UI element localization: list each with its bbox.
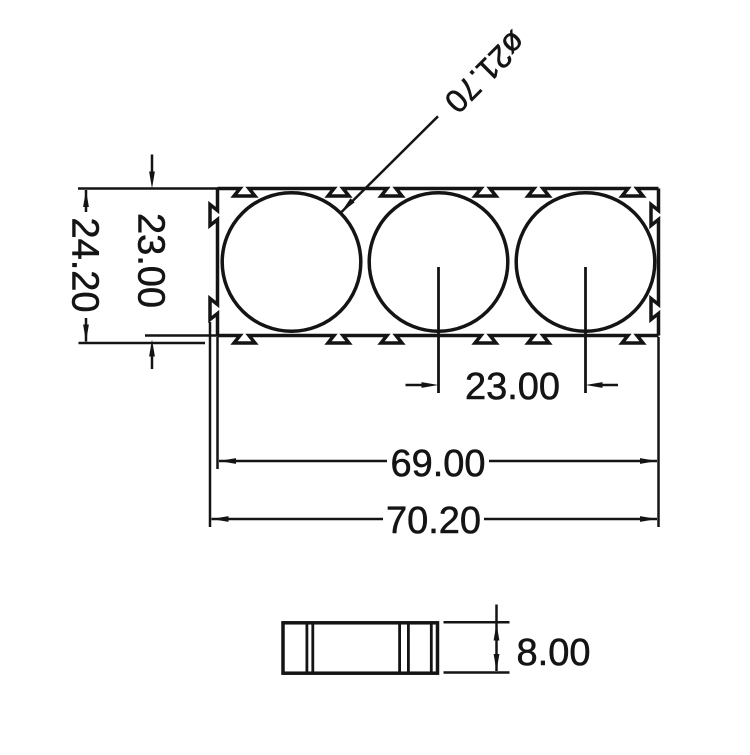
- svg-text:69.00: 69.00: [390, 443, 485, 485]
- 70.20 arrow right: [640, 516, 657, 522]
- extension line right edge down: [657, 337, 660, 527]
- diameter leader line: [341, 116, 439, 213]
- cell bore circle 2: [369, 193, 508, 332]
- extension line top edge (left): [78, 187, 218, 190]
- centre line circle 2: [437, 267, 440, 393]
- leader arrowhead: [341, 198, 355, 213]
- dimension 23.00v arrow up: [149, 340, 155, 357]
- svg-text:ø21.70: ø21.70: [438, 24, 534, 120]
- centre line circle 3: [584, 267, 587, 393]
- 70.20 arrow left: [212, 516, 229, 522]
- dimension 24.20 line segments: [64, 190, 106, 342]
- svg-text:24.20: 24.20: [64, 217, 106, 312]
- extension line tab bottom (left): [79, 342, 206, 345]
- extension line left body edge down: [216, 337, 219, 469]
- side view tab base line 1a: [305, 623, 308, 673]
- side view tab base line 2b: [407, 623, 410, 673]
- pitch arrow right: [422, 382, 439, 388]
- extension line side bottom: [444, 671, 510, 674]
- svg-text:70.20: 70.20: [386, 500, 481, 542]
- 8.00 arrow down: [494, 654, 500, 671]
- side view rectangle: [283, 623, 438, 673]
- dimension 70.20: [212, 500, 658, 542]
- profile top edge with dovetail slots: [218, 189, 659, 197]
- extension line body bottom (left): [145, 334, 218, 337]
- dimension 23.00 vertical arrows outside: [130, 155, 172, 370]
- side view body bottom line: [430, 623, 433, 673]
- dimension 23.00v arrow down: [149, 172, 155, 189]
- dimension 8.00: [494, 605, 591, 675]
- svg-text:8.00: 8.00: [517, 632, 591, 674]
- dimension 69.00: [219, 443, 657, 485]
- side view tab base line 1b: [311, 623, 314, 673]
- pitch arrow left: [586, 382, 603, 388]
- 69.00 arrow left: [219, 458, 236, 464]
- 8.00 arrow up: [494, 624, 500, 641]
- side view tab base line 2a: [398, 623, 401, 673]
- dimension 24.20 arrow down: [83, 325, 89, 342]
- profile right edge with dovetail slots: [651, 189, 659, 336]
- cell bore circle 1: [222, 193, 361, 332]
- svg-text:23.00: 23.00: [130, 213, 172, 308]
- 69.00 arrow right: [640, 458, 657, 464]
- svg-text:23.00: 23.00: [465, 366, 560, 408]
- extension line left tab face down: [209, 322, 212, 527]
- dimension 23.00 horizontal (cell pitch): [406, 366, 619, 408]
- profile left edge with dovetail tabs: [210, 189, 218, 336]
- cell bore circle 3: [516, 193, 655, 332]
- profile bottom edge with dovetail tabs: [218, 336, 659, 344]
- dimension 24.20 arrow up: [83, 190, 89, 207]
- extension line side top: [444, 621, 510, 624]
